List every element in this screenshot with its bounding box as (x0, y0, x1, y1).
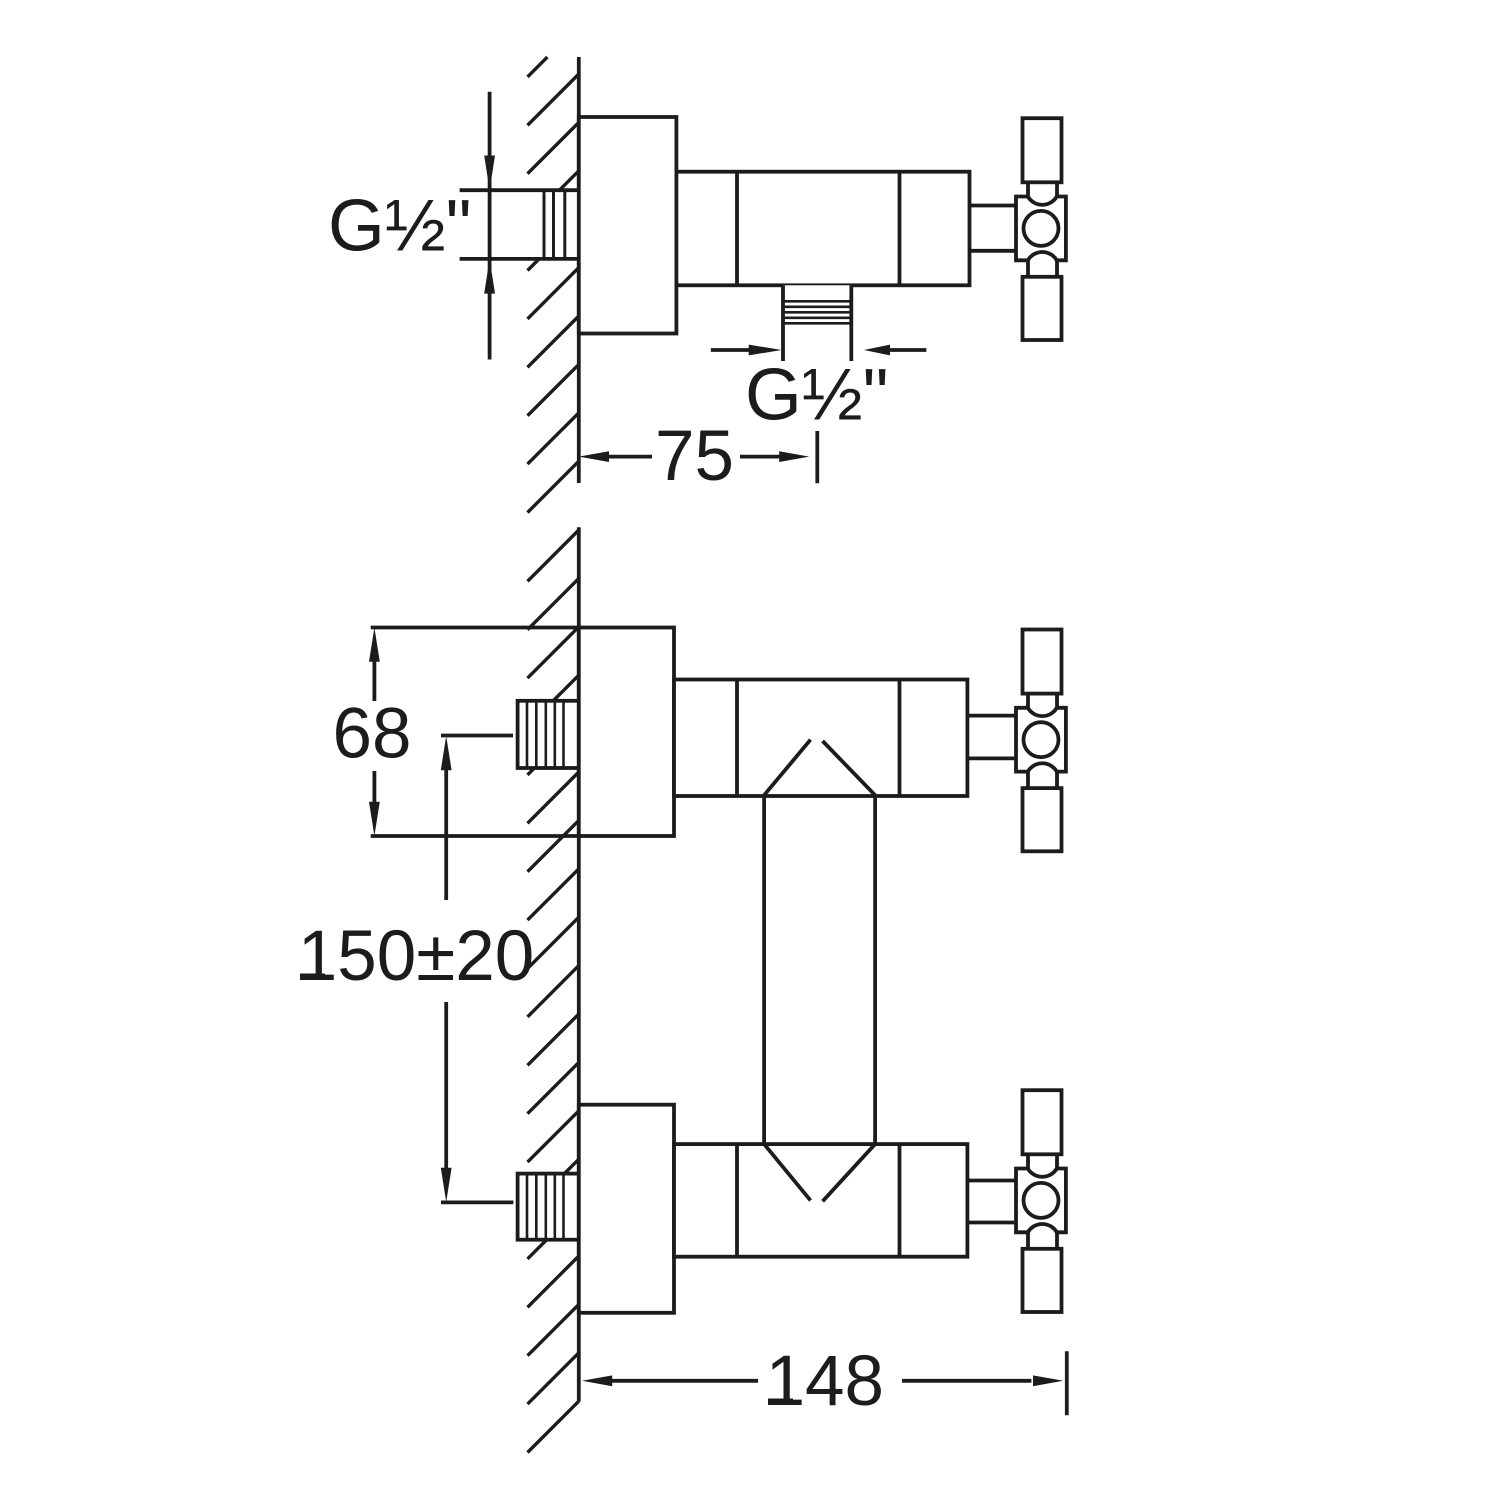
svg-text:68: 68 (333, 695, 412, 774)
svg-text:150±20: 150±20 (298, 917, 534, 996)
svg-text:G½": G½" (745, 355, 889, 436)
svg-text:75: 75 (655, 417, 734, 496)
svg-text:148: 148 (766, 1342, 884, 1421)
svg-text:G½": G½" (328, 186, 472, 267)
